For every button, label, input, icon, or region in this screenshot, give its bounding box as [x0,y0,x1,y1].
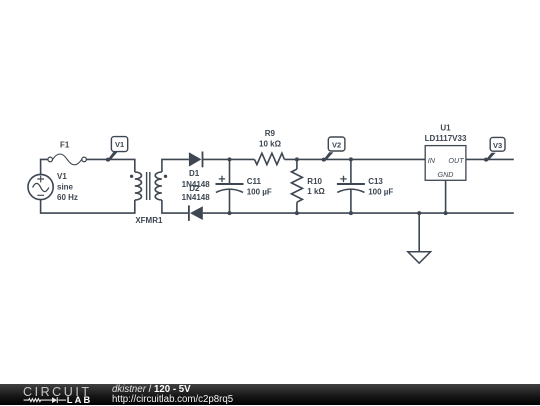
fuse F1 [48,154,86,165]
node dot C13 bottom [349,211,353,215]
svg-text:1N4148: 1N4148 [182,193,211,202]
node dot C11 bottom [228,211,232,215]
wire R9 to U1 [284,158,425,160]
regulator U1 box [425,146,466,181]
node V2 tap dot [322,158,326,162]
svg-text:LD1117V33: LD1117V33 [425,134,467,143]
node dot ground [417,211,421,215]
node V3 tap dot [484,158,488,162]
node dot C13 top [349,157,353,161]
svg-text:GND: GND [438,170,454,179]
capacitor C11 [216,159,244,213]
node dot R10 top [295,157,299,161]
node dot C11 top [228,157,232,161]
wire source top to fuse [41,159,48,174]
svg-text:F1: F1 [60,141,70,150]
svg-text:1 kΩ: 1 kΩ [307,187,325,196]
svg-text:C11: C11 [247,177,262,186]
flag V1 [107,137,128,162]
wire secondary top [162,159,189,172]
diode D1 [189,152,203,168]
wire U1 gnd pin [445,180,447,213]
wire secondary bottom left [162,200,189,213]
node dot U1 gnd [444,211,448,215]
diode D2 [189,205,203,221]
svg-text:V1: V1 [57,172,67,181]
svg-text:V1: V1 [115,140,124,149]
svg-text:IN: IN [428,156,436,165]
svg-text:D2: D2 [189,184,200,193]
svg-text:U1: U1 [440,123,451,132]
svg-text:R9: R9 [265,129,276,138]
wire D1 to R9 [203,158,255,160]
svg-text:XFMR1: XFMR1 [135,216,163,225]
svg-text:R10: R10 [307,177,322,186]
ground [408,213,431,263]
voltage source V1 [28,174,53,199]
node V1 tap dot [106,158,110,162]
wire primary bottom loop [41,200,135,213]
svg-text:V3: V3 [493,141,502,150]
svg-text:100 µF: 100 µF [247,188,272,197]
circuitlab logo [0,384,110,405]
svg-text:sine: sine [57,182,74,191]
svg-text:V2: V2 [332,141,341,150]
wire U1 out [466,158,514,160]
flag V3 [485,137,505,161]
resistor R9 [254,153,284,164]
capacitor C13 [337,159,365,213]
node dot R10 bottom [295,211,299,215]
svg-text:100 µF: 100 µF [368,188,393,197]
wire fuse to corner [87,159,135,172]
transformer XFMR1 [130,172,167,200]
svg-text:60 Hz: 60 Hz [57,193,78,202]
footer bar [0,384,540,405]
wire bottom rail [203,212,514,214]
svg-text:D1: D1 [189,169,200,178]
footer text [112,384,233,406]
resistor R10 [291,159,302,213]
flag V2 [323,137,345,161]
svg-text:LAB: LAB [67,395,93,405]
svg-text:OUT: OUT [448,156,464,165]
svg-text:10 kΩ: 10 kΩ [259,140,282,149]
svg-text:C13: C13 [368,177,383,186]
